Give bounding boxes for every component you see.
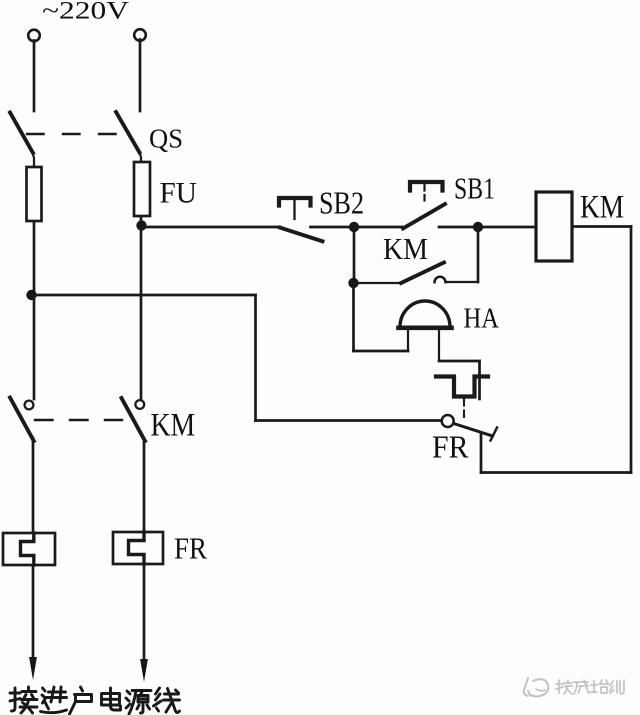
junction xyxy=(473,222,483,232)
watermark text 培 xyxy=(591,680,609,693)
arrow xyxy=(140,659,148,682)
wire xyxy=(140,162,143,227)
wire xyxy=(143,439,146,532)
wire xyxy=(439,226,536,229)
KM linkage (dashed) xyxy=(35,419,122,421)
caption character 进 xyxy=(41,687,67,713)
fuse FU1 xyxy=(27,167,42,221)
wire xyxy=(254,295,257,421)
caption character 电 xyxy=(102,688,121,710)
wire xyxy=(32,438,35,533)
svg-text:KM: KM xyxy=(151,408,196,444)
QS linkage (dashed) xyxy=(27,133,116,135)
svg-text:FR: FR xyxy=(174,531,207,566)
thermal overload element FR2 xyxy=(113,532,163,564)
contactor KM main pole 1 xyxy=(10,398,34,442)
FR mechanical linkage (dashed) xyxy=(463,399,465,421)
bell HA xyxy=(399,301,452,361)
contact KM auxiliary xyxy=(354,263,479,284)
caption character 线 xyxy=(154,688,180,713)
wire xyxy=(33,167,36,295)
switch QS pole 1 xyxy=(10,113,34,168)
junction xyxy=(26,290,36,300)
wire xyxy=(33,41,36,112)
contact FR (NC) xyxy=(442,415,497,441)
watermark text 成 xyxy=(574,680,590,694)
watermark text 技 xyxy=(556,680,572,694)
svg-text:QS: QS xyxy=(149,123,183,154)
relay coil KM xyxy=(536,192,572,261)
switch QS pole 2 xyxy=(116,112,141,162)
junction xyxy=(349,222,359,232)
wire xyxy=(480,434,483,473)
svg-text:FU: FU xyxy=(160,177,198,209)
caption character 接 xyxy=(10,687,37,713)
terminal L2 xyxy=(134,29,146,41)
svg-text:SB2: SB2 xyxy=(319,185,364,221)
fuse FU2 xyxy=(134,162,150,216)
thermal overload element FR1 xyxy=(3,533,55,565)
svg-text:KM: KM xyxy=(580,190,624,226)
pushbutton SB2 xyxy=(279,198,323,241)
wire xyxy=(630,227,633,473)
wire xyxy=(353,227,356,283)
terminal L1 xyxy=(28,30,40,42)
svg-text:KM: KM xyxy=(383,231,428,266)
wire xyxy=(354,350,409,353)
wire xyxy=(481,471,631,474)
svg-text:FR: FR xyxy=(432,429,469,464)
watermark logo xyxy=(524,678,549,696)
arrow xyxy=(29,657,37,680)
svg-text:~220V: ~220V xyxy=(42,0,130,25)
wire xyxy=(354,226,403,229)
wire xyxy=(32,294,256,297)
wire xyxy=(139,40,142,112)
junction xyxy=(348,278,358,288)
wire xyxy=(33,295,36,399)
wire xyxy=(311,226,355,229)
thermal heater element FR xyxy=(436,377,488,397)
wire xyxy=(141,226,280,229)
wire xyxy=(352,283,355,351)
svg-text:SB1: SB1 xyxy=(454,172,495,206)
wire xyxy=(572,225,631,228)
wire xyxy=(256,419,442,422)
wire xyxy=(32,565,35,659)
caption character 源 xyxy=(126,691,151,715)
caption character 户 xyxy=(70,687,92,714)
wire xyxy=(439,360,480,363)
contactor KM main pole 2 xyxy=(122,398,146,441)
wire xyxy=(478,361,481,399)
junction xyxy=(136,220,146,230)
watermark text 训 xyxy=(610,680,624,694)
wire xyxy=(140,227,143,399)
svg-text:HA: HA xyxy=(464,303,500,335)
wire xyxy=(477,227,480,282)
pushbutton SB1 xyxy=(403,182,445,228)
wire xyxy=(143,564,146,661)
